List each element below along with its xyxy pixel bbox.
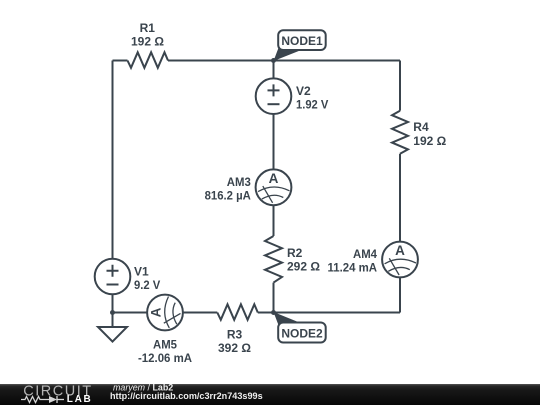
wire top-left segment — [113, 60, 128, 62]
junction dot node2 — [271, 310, 276, 315]
wire AM5 to R3 — [183, 312, 218, 314]
svg-text:11.24 mA: 11.24 mA — [328, 260, 378, 274]
svg-text:AM3: AM3 — [227, 175, 251, 189]
wire R3 to node2 — [258, 312, 274, 314]
svg-text:1.92 V: 1.92 V — [296, 97, 328, 111]
svg-text:V2: V2 — [296, 84, 311, 98]
voltage source V1 — [95, 259, 131, 295]
svg-text:AM5: AM5 — [153, 338, 177, 352]
svg-text:http://circuitlab.com/c3rr2n74: http://circuitlab.com/c3rr2n743s99s — [110, 391, 263, 401]
svg-text:R2: R2 — [287, 246, 303, 260]
wire top middle — [168, 60, 274, 62]
voltage source V2 — [256, 78, 292, 114]
ground — [98, 327, 127, 342]
wire R2 to node2 — [273, 283, 275, 313]
wire node2 to bottom-right corner — [274, 312, 401, 314]
resistor R4 — [392, 111, 408, 154]
svg-text:292 Ω: 292 Ω — [287, 259, 320, 273]
wire left vertical — [112, 61, 114, 260]
wire right vertical lower — [399, 277, 401, 312]
wire AM3 to R2 — [273, 205, 275, 236]
wire AM4 to R4 — [399, 154, 401, 242]
junction dot node1 — [271, 58, 276, 63]
svg-text:192 Ω: 192 Ω — [413, 134, 446, 148]
svg-text:R4: R4 — [413, 120, 429, 134]
wire top right — [274, 60, 401, 62]
junction dot left — [110, 310, 115, 315]
ammeter AM5 — [147, 295, 183, 331]
wire V2 to AM3 — [273, 114, 275, 170]
node tag NODE1 — [274, 30, 326, 61]
wire node1 to V2 — [273, 61, 275, 79]
wire junction to AM5 — [113, 312, 148, 314]
node tag NODE2 — [274, 312, 326, 343]
svg-text:R1: R1 — [140, 21, 156, 35]
wire V1 to ground junction — [112, 294, 114, 312]
footer logo glyph — [21, 396, 64, 403]
svg-text:-12.06 mA: -12.06 mA — [138, 351, 192, 365]
svg-text:AM4: AM4 — [353, 247, 377, 261]
ammeter AM4 — [382, 242, 418, 278]
svg-text:392 Ω: 392 Ω — [218, 341, 251, 355]
svg-text:NODE1: NODE1 — [281, 34, 323, 48]
ammeter AM3 — [256, 169, 292, 205]
svg-text:NODE2: NODE2 — [281, 327, 323, 341]
svg-text:R3: R3 — [227, 328, 243, 342]
svg-text:V1: V1 — [134, 265, 149, 279]
svg-text:LAB: LAB — [67, 394, 93, 405]
wire ground stub — [112, 313, 114, 328]
resistor R1 — [128, 52, 169, 68]
resistor R2 — [265, 236, 282, 283]
resistor R3 — [217, 304, 257, 320]
svg-text:9.2 V: 9.2 V — [134, 278, 160, 292]
svg-text:192 Ω: 192 Ω — [131, 34, 164, 48]
svg-text:816.2 µA: 816.2 µA — [205, 188, 252, 202]
footer bar — [0, 384, 540, 405]
wire R4 to top — [399, 61, 401, 111]
